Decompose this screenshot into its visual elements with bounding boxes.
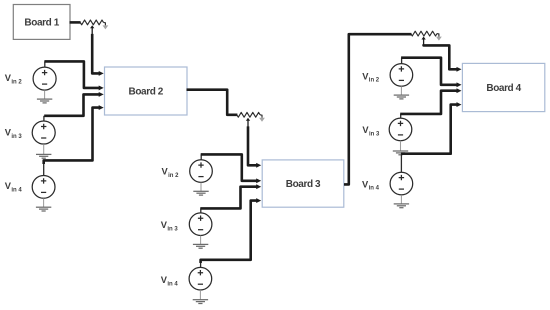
resistor R1	[80, 20, 105, 25]
source Vin3 (Board 3 group)	[189, 213, 212, 236]
label Vin3 (Board 2 group)	[5, 128, 23, 140]
source Vin4 (Board 3 group)	[189, 267, 212, 290]
board B1 "Board 1"	[13, 5, 70, 40]
board B3 "Board 3"	[262, 160, 344, 207]
source Vin2 (Board 4 group)	[390, 64, 413, 87]
wire Vin2 to Board4 input 2	[401, 58, 461, 88]
wire Vin3 to Board2 input 3	[44, 92, 104, 121]
wire R3 tap to Board4 input 1	[421, 37, 461, 72]
wire R1 tap to Board2 input 1	[90, 25, 104, 76]
svg-text:in 3: in 3	[11, 134, 22, 140]
ground (R3 right end, gray arrow)	[436, 37, 442, 41]
source Vin3 (Board 4 group)	[389, 118, 412, 141]
ground (under Vin3, Board 4 group)	[393, 141, 408, 155]
svg-text:Board 4: Board 4	[486, 83, 521, 94]
label Vin3 (Board 3 group)	[161, 220, 179, 232]
svg-text:in 3: in 3	[369, 132, 380, 138]
wire Vin3 to Board4 input 3	[400, 88, 461, 118]
ground (R1 right end, gray arrow)	[103, 25, 109, 29]
source Vin4 (Board 4 group)	[390, 172, 413, 195]
resistor R2	[237, 112, 262, 117]
resistor R3	[411, 31, 439, 36]
svg-text:in 3: in 3	[167, 227, 178, 233]
wire Vin2 to Board2 input 2	[44, 61, 103, 90]
svg-text:Board 1: Board 1	[24, 18, 59, 29]
source Vin4 (Board 2 group)	[32, 176, 55, 199]
board B4 "Board 4"	[462, 63, 544, 111]
wire Vin3 to Board3 input 3	[200, 184, 261, 213]
label Vin4 (Board 2 group)	[5, 181, 23, 193]
ground (under Vin4, Board 4 group)	[394, 195, 409, 208]
wire Board2 output to R2	[187, 90, 238, 115]
ground (under Vin2, Board 4 group)	[394, 86, 409, 99]
svg-text:in 4: in 4	[167, 282, 178, 288]
label Vin2 (Board 4 group)	[362, 71, 380, 83]
ground (under Vin4, Board 2 group)	[36, 198, 51, 211]
wire Vin2 to Board3 input 2	[201, 154, 262, 183]
source Vin3 (Board 2 group)	[32, 121, 55, 144]
source Vin2 (Board 3 group)	[190, 160, 213, 183]
ground (under Vin4, Board 3 group)	[193, 290, 208, 303]
label Vin3 (Board 4 group)	[362, 125, 380, 137]
svg-text:in 2: in 2	[11, 79, 22, 85]
ground (under Vin2, Board 3 group)	[193, 183, 208, 196]
label Vin4 (Board 3 group)	[161, 275, 179, 287]
label Vin2 (Board 2 group)	[5, 73, 23, 85]
ground (R2 right end, gray arrow)	[259, 118, 265, 122]
wire R2 tap to Board3 input 1	[246, 118, 261, 168]
label Vin2 (Board 3 group)	[162, 167, 180, 179]
source Vin2 (Board 2 group)	[33, 67, 56, 90]
svg-text:Board 3: Board 3	[286, 179, 321, 190]
svg-text:in 4: in 4	[369, 186, 380, 192]
ground (under Vin2, Board 2 group)	[37, 90, 52, 103]
board B2 "Board 2"	[105, 67, 188, 115]
wire Vin4 to Board4 input 4	[401, 102, 462, 172]
ground (under Vin3, Board 2 group)	[36, 144, 51, 158]
ground (under Vin3, Board 3 group)	[193, 236, 208, 249]
wire Vin4 to Board2 input 4	[44, 105, 104, 175]
svg-text:in 2: in 2	[168, 173, 179, 179]
svg-text:Board 2: Board 2	[129, 87, 164, 98]
svg-text:in 4: in 4	[11, 188, 22, 194]
wire Board1 output to R1	[70, 21, 81, 24]
svg-text:in 2: in 2	[369, 78, 380, 84]
wire Vin4 to Board3 input 4	[201, 198, 262, 267]
wire Board3 output to R3	[344, 34, 412, 184]
label Vin4 (Board 4 group)	[362, 179, 380, 191]
